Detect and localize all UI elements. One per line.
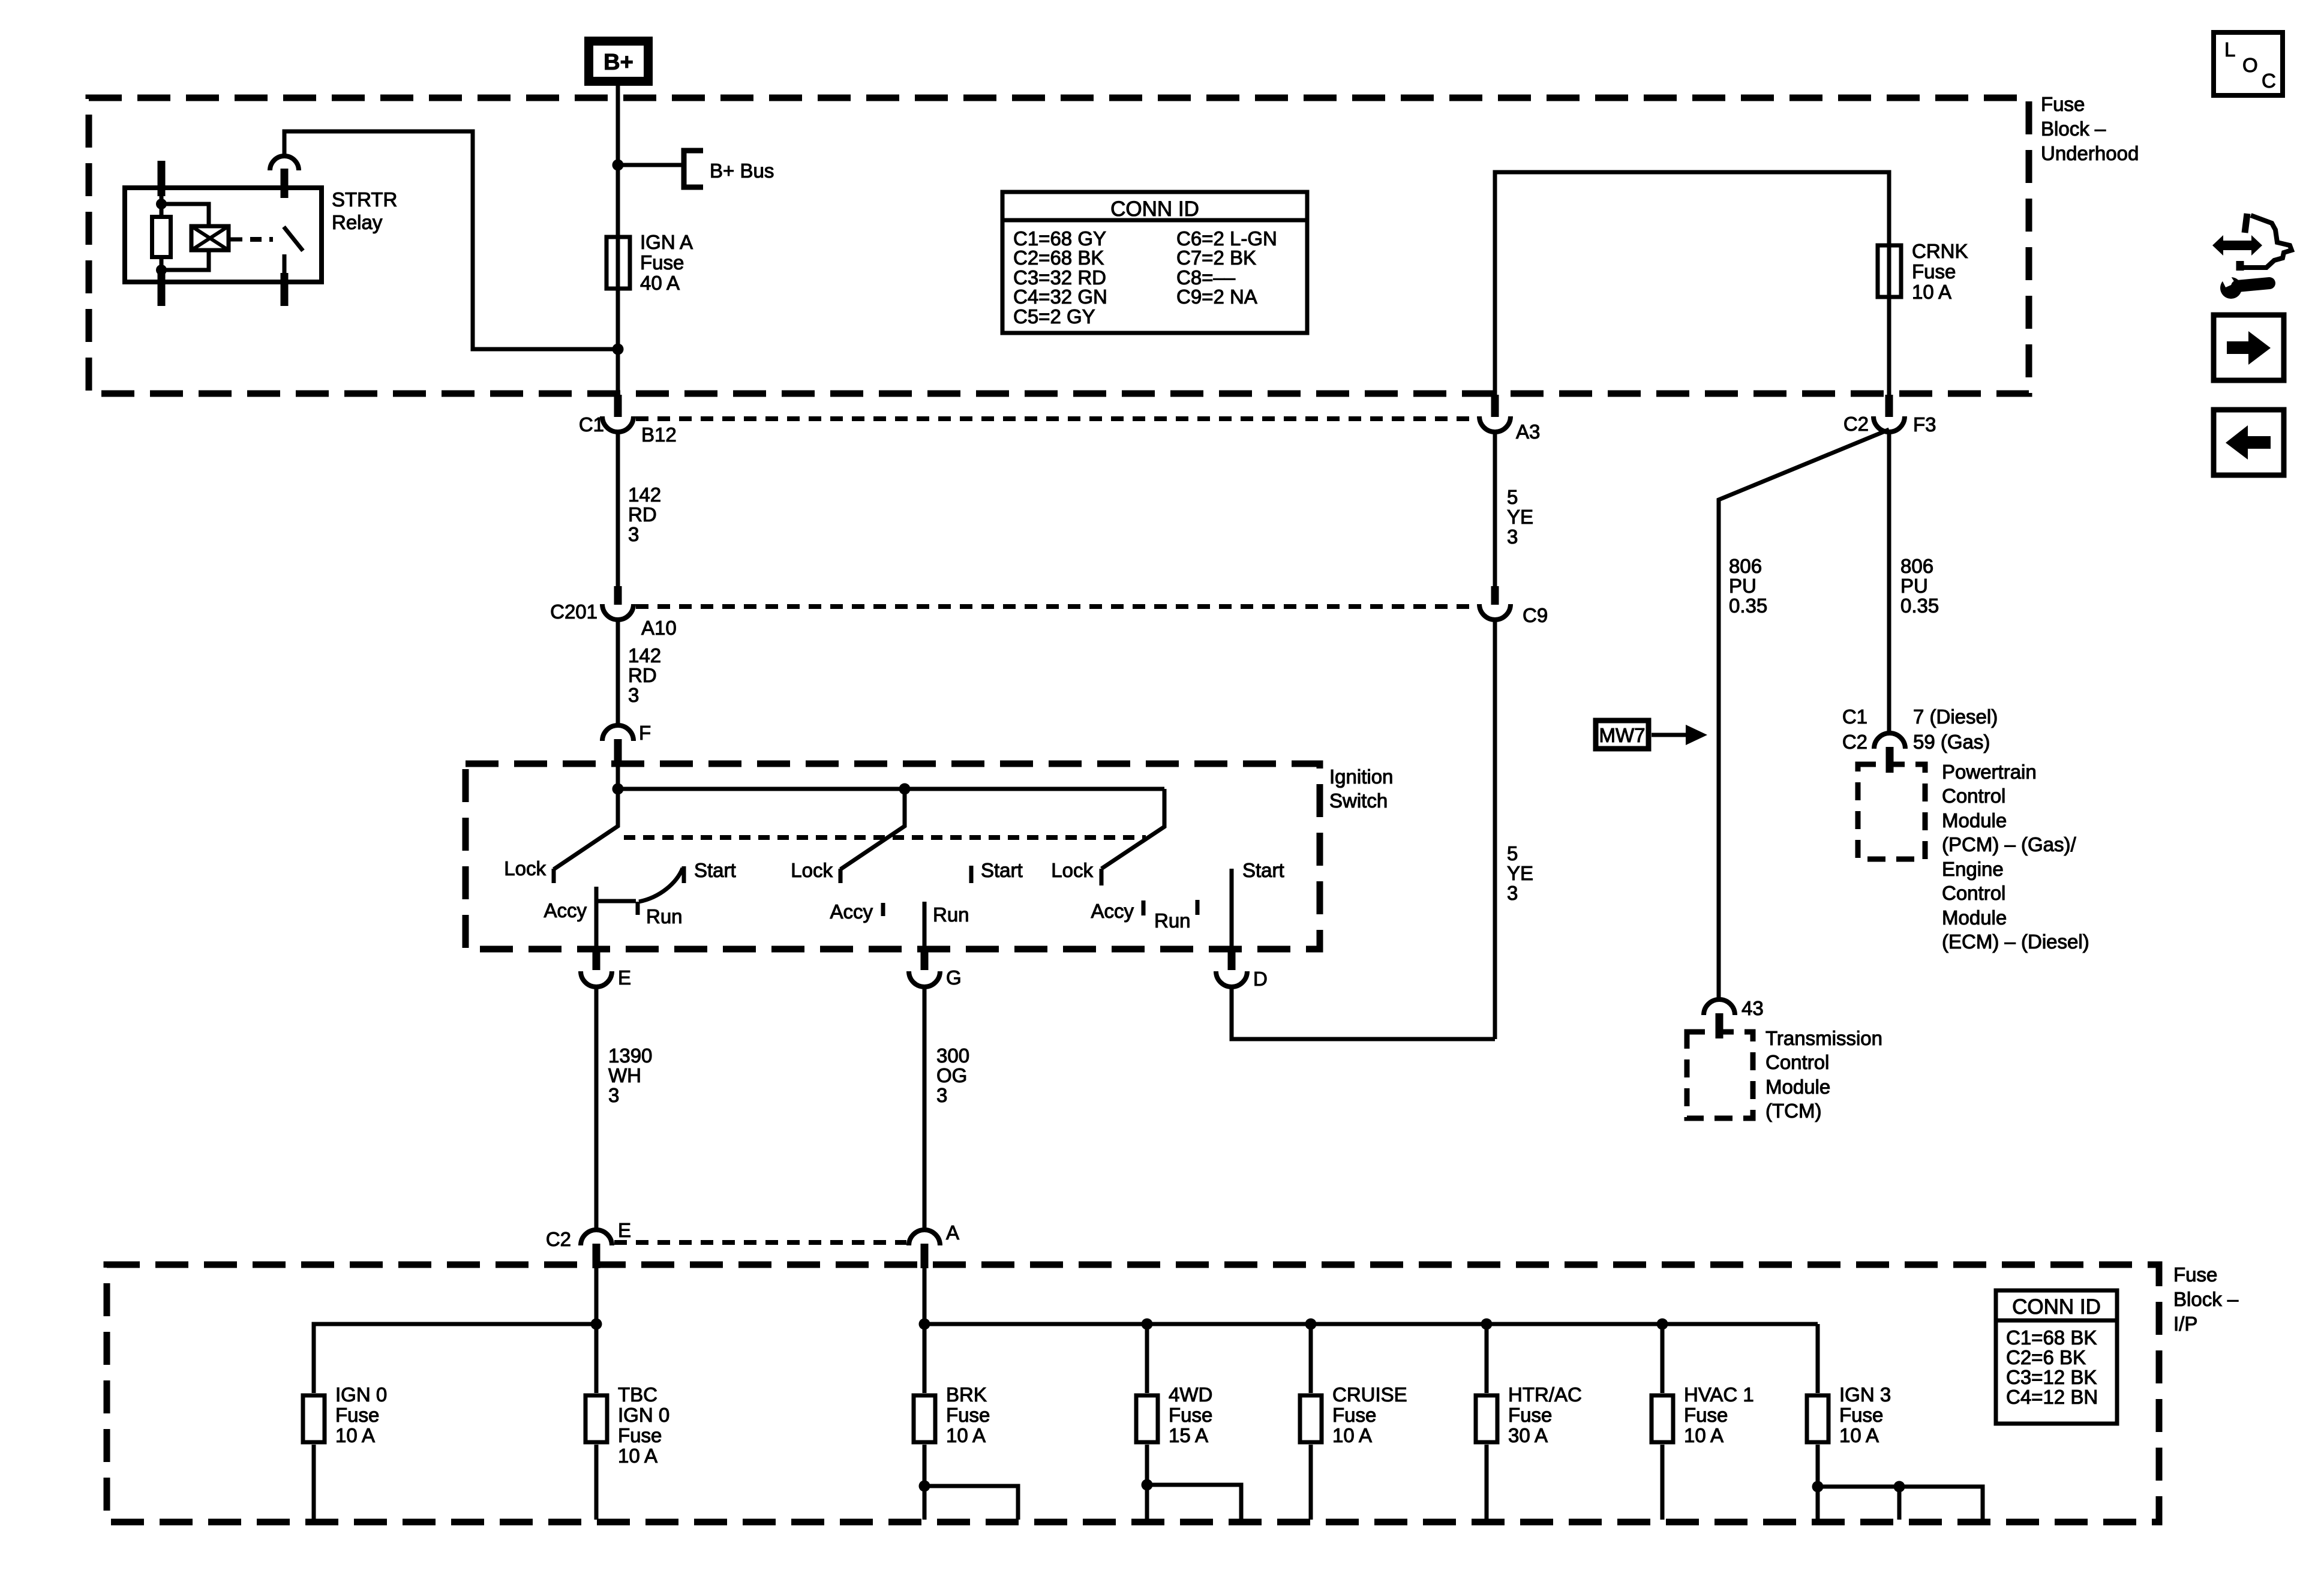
- relay switch pin top: [281, 169, 289, 198]
- node BRK lower junction: [919, 1481, 930, 1492]
- svg-text:BRK: BRK: [946, 1383, 987, 1406]
- connector C2 pin F3: [1843, 395, 1936, 436]
- svg-text:Run: Run: [933, 903, 969, 926]
- svg-text:3: 3: [608, 1084, 619, 1106]
- label wire 1390 WH 3: [608, 1044, 652, 1106]
- CONN ID table IP: [1996, 1290, 2117, 1424]
- svg-text:Fuse: Fuse: [640, 251, 684, 274]
- node 4WD lower junction: [1142, 1479, 1153, 1491]
- connector C201 pin A10: [550, 586, 677, 639]
- svg-text:F3: F3: [1913, 413, 1936, 436]
- svg-text:3: 3: [936, 1084, 947, 1106]
- svg-text:Fuse: Fuse: [1839, 1404, 1883, 1426]
- svg-text:C3=12 BK: C3=12 BK: [2006, 1366, 2097, 1388]
- wire CRNK feed horizontal: [1495, 172, 1889, 395]
- svg-text:C9: C9: [1523, 604, 1548, 626]
- label Ignition Switch: [1329, 766, 1393, 812]
- fuse BRK 10A: [914, 1383, 990, 1446]
- svg-text:142: 142: [628, 644, 661, 667]
- svg-text:A10: A10: [641, 617, 677, 639]
- svg-text:Start: Start: [1242, 859, 1284, 881]
- wire HTR/AC branch: [1485, 1324, 1489, 1393]
- connector C1 pin B12: [579, 395, 677, 446]
- svg-text:10 A: 10 A: [1332, 1424, 1372, 1446]
- svg-text:C201: C201: [550, 601, 597, 623]
- wire 1390 WH circuit: [594, 987, 599, 1230]
- connector PCM pins C1 C2: [1842, 706, 1998, 773]
- svg-text:Fuse: Fuse: [1684, 1404, 1728, 1426]
- wire coil branch: [161, 204, 209, 270]
- svg-text:PU: PU: [1729, 575, 1756, 597]
- contact Run 1: [596, 901, 683, 927]
- svg-text:C2=6 BK: C2=6 BK: [2006, 1346, 2086, 1368]
- svg-text:Fuse: Fuse: [2041, 93, 2085, 115]
- label wire 5 YE 3 upper: [1507, 486, 1533, 548]
- node bus junction 4WD: [1142, 1319, 1153, 1330]
- fuse IGN 0 10A: [303, 1383, 387, 1446]
- svg-text:(PCM) – (Gas)/: (PCM) – (Gas)/: [1942, 833, 2077, 855]
- label wire 142 RD 3 second: [628, 644, 661, 706]
- svg-text:I/P: I/P: [2173, 1313, 2197, 1335]
- svg-text:Fuse: Fuse: [1508, 1404, 1552, 1426]
- contact Lock 1: [504, 857, 554, 883]
- svg-text:Accy: Accy: [830, 900, 873, 923]
- svg-text:CRUISE: CRUISE: [1332, 1383, 1407, 1406]
- svg-text:O: O: [2242, 54, 2258, 76]
- wire 300 OG circuit: [923, 987, 927, 1230]
- svg-text:STRTR: STRTR: [332, 188, 397, 211]
- svg-text:D: D: [1253, 968, 1268, 990]
- svg-text:Block –: Block –: [2041, 118, 2106, 140]
- wire below IGN 3 fuse with stubs: [1818, 1445, 1983, 1520]
- icon arrow right box: [2214, 315, 2284, 380]
- svg-text:TBC: TBC: [618, 1383, 657, 1406]
- svg-text:CRNK: CRNK: [1912, 240, 1968, 262]
- fuse HTR/AC 30A: [1476, 1383, 1582, 1446]
- wire dashed connector row C1: [636, 416, 1477, 421]
- svg-text:Fuse: Fuse: [1169, 1404, 1212, 1426]
- node B+ bus junction: [612, 160, 624, 171]
- svg-text:C2: C2: [1843, 413, 1869, 435]
- node IGN 3 lower junction 1: [1812, 1481, 1824, 1493]
- connector A fuse block IP: [909, 1221, 959, 1268]
- contact Lock 2: [791, 859, 840, 883]
- label Powertrain Control Module: [1942, 761, 2089, 953]
- wire diagonal F3 to TCM branch: [1719, 430, 1889, 999]
- relay switch pin bottom: [281, 273, 289, 306]
- svg-text:5: 5: [1507, 842, 1518, 864]
- fuse HVAC 1 10A: [1652, 1383, 1754, 1446]
- svg-text:(TCM): (TCM): [1765, 1100, 1821, 1122]
- svg-text:142: 142: [628, 484, 661, 506]
- svg-text:3: 3: [1507, 882, 1518, 904]
- svg-text:Transmission: Transmission: [1765, 1027, 1882, 1049]
- relay coil pin top: [158, 161, 166, 196]
- wire below HVAC 1 fuse: [1661, 1445, 1665, 1520]
- node relay branch junction: [612, 344, 624, 355]
- svg-text:Run: Run: [646, 905, 683, 927]
- svg-text:Powertrain: Powertrain: [1942, 761, 2037, 783]
- svg-text:Run: Run: [1154, 909, 1191, 932]
- svg-text:C4=32 GN: C4=32 GN: [1013, 286, 1107, 308]
- svg-text:HTR/AC: HTR/AC: [1508, 1383, 1582, 1406]
- svg-text:15 A: 15 A: [1169, 1424, 1208, 1446]
- svg-text:3: 3: [628, 684, 639, 706]
- svg-text:B12: B12: [641, 424, 677, 446]
- wire IP bus left: [314, 1268, 596, 1393]
- svg-text:Module: Module: [1765, 1076, 1830, 1098]
- node relay top junction: [156, 199, 167, 209]
- node bus junction HVAC 1: [1657, 1319, 1668, 1330]
- node relay bottom junction: [156, 265, 167, 275]
- svg-text:Ignition: Ignition: [1329, 766, 1393, 788]
- svg-text:PU: PU: [1900, 575, 1928, 597]
- CONN ID table underhood: [1002, 192, 1307, 333]
- contact Run 2 / wire G output: [924, 902, 969, 951]
- node bus junction HTR/AC: [1481, 1319, 1493, 1330]
- fuse TBC IGN 0 10A: [585, 1383, 669, 1467]
- svg-text:Fuse: Fuse: [946, 1404, 990, 1426]
- svg-text:Fuse: Fuse: [2173, 1263, 2217, 1286]
- svg-text:B+: B+: [603, 50, 633, 75]
- connector C2 pin E fuse block IP: [546, 1219, 631, 1268]
- wire 5 YE lower segment: [1232, 620, 1495, 1039]
- wire dashed connector row E-A: [614, 1240, 906, 1245]
- fuse 4WD 15A: [1136, 1383, 1212, 1446]
- svg-text:Module: Module: [1942, 809, 2007, 831]
- svg-text:C1: C1: [579, 413, 604, 436]
- svg-text:Switch: Switch: [1329, 789, 1388, 812]
- MW7 pointer arrow: [1652, 725, 1707, 745]
- svg-text:C1: C1: [1842, 706, 1867, 728]
- svg-text:0.35: 0.35: [1729, 595, 1767, 617]
- svg-text:Relay: Relay: [332, 211, 383, 233]
- label wire 806 PU 0.35 left: [1729, 555, 1767, 617]
- svg-text:Underhood: Underhood: [2041, 142, 2139, 164]
- wire below CRUISE fuse: [1309, 1445, 1313, 1520]
- icon vehicle diagnostic: [2212, 214, 2292, 299]
- svg-text:30 A: 30 A: [1508, 1424, 1548, 1446]
- label STRTR Relay: [332, 188, 397, 233]
- wire to B+ Bus: [618, 163, 683, 167]
- svg-text:59 (Gas): 59 (Gas): [1913, 731, 1990, 753]
- svg-text:10 A: 10 A: [1684, 1424, 1724, 1446]
- switch blade section 2: [840, 789, 905, 869]
- svg-text:B+ Bus: B+ Bus: [710, 160, 774, 182]
- svg-text:RD: RD: [628, 664, 657, 686]
- svg-text:10 A: 10 A: [1839, 1424, 1879, 1446]
- svg-text:0.35: 0.35: [1900, 595, 1939, 617]
- svg-text:C9=2 NA: C9=2 NA: [1176, 286, 1257, 308]
- wire B+ vertical feed: [616, 86, 620, 395]
- svg-text:YE: YE: [1507, 862, 1533, 884]
- label Transmission Control Module: [1765, 1027, 1882, 1122]
- svg-text:1390: 1390: [608, 1044, 652, 1067]
- svg-text:F: F: [639, 722, 651, 744]
- svg-text:10 A: 10 A: [946, 1424, 986, 1446]
- relay switch pin socket arc: [270, 156, 299, 170]
- wire below BRK fuse with stubs: [924, 1445, 1018, 1520]
- node IGN 3 lower junction 2: [1894, 1481, 1905, 1493]
- svg-text:IGN 0: IGN 0: [335, 1383, 387, 1406]
- wire 5 YE upper segment: [1493, 430, 1497, 586]
- svg-text:IGN A: IGN A: [640, 231, 693, 253]
- svg-text:43: 43: [1742, 997, 1764, 1019]
- contact Accy 1 / wire E output: [544, 887, 596, 951]
- node pole junction 2: [899, 784, 911, 795]
- svg-text:Start: Start: [694, 859, 736, 881]
- svg-text:CONN ID: CONN ID: [1110, 197, 1199, 221]
- contact Start 1: [684, 859, 736, 883]
- connector G ignition switch: [909, 950, 962, 989]
- fuse block IP dashed box: [107, 1265, 2159, 1522]
- node bus junction A: [919, 1319, 930, 1330]
- svg-text:C5=2 GY: C5=2 GY: [1013, 305, 1095, 328]
- svg-text:WH: WH: [608, 1064, 641, 1086]
- wire 142 RD circuit upper: [616, 432, 620, 586]
- svg-text:YE: YE: [1507, 506, 1533, 528]
- coil relay winding: [191, 226, 229, 250]
- svg-text:3: 3: [1507, 526, 1518, 548]
- MW7 option box: [1596, 721, 1649, 749]
- wire IP bus right: [924, 1268, 1818, 1393]
- svg-text:C7=2 BK: C7=2 BK: [1176, 247, 1256, 269]
- svg-text:A3: A3: [1516, 421, 1540, 443]
- wire 4WD branch: [1145, 1324, 1149, 1393]
- svg-text:C2: C2: [1842, 731, 1867, 753]
- svg-text:A: A: [946, 1221, 959, 1244]
- wire dashed actuator linkage: [229, 238, 242, 242]
- svg-text:Accy: Accy: [1091, 900, 1134, 922]
- svg-text:Control: Control: [1765, 1051, 1829, 1073]
- svg-text:IGN 0: IGN 0: [618, 1404, 669, 1426]
- wire dashed switch linkage: [624, 835, 1146, 840]
- contact Lock 3: [1051, 859, 1101, 885]
- wire pole feed into switch: [618, 763, 1164, 789]
- svg-text:Control: Control: [1942, 882, 2005, 904]
- connector D ignition switch: [1216, 950, 1268, 990]
- PCM module dashed box: [1858, 764, 1925, 859]
- node pole junction 1: [612, 784, 624, 795]
- svg-text:E: E: [618, 1219, 631, 1241]
- svg-text:10 A: 10 A: [1912, 281, 1951, 303]
- connector E ignition switch: [581, 950, 631, 989]
- ignition switch dashed box: [466, 764, 1320, 949]
- contact Start 3 / wire D output: [1232, 859, 1284, 951]
- svg-text:10 A: 10 A: [335, 1424, 375, 1446]
- svg-text:C1=68 BK: C1=68 BK: [2006, 1326, 2097, 1349]
- B+ power symbol: [589, 41, 648, 82]
- wire below 4WD fuse with stubs: [1147, 1445, 1241, 1520]
- svg-text:Fuse: Fuse: [618, 1424, 662, 1446]
- connector TCM pin 43: [1704, 997, 1764, 1038]
- contact Accy 3: [1091, 900, 1143, 922]
- svg-text:Lock: Lock: [504, 857, 546, 879]
- wire from junction to relay switch: [284, 131, 618, 349]
- svg-text:Lock: Lock: [791, 859, 833, 881]
- svg-text:300: 300: [936, 1044, 969, 1067]
- svg-text:Block –: Block –: [2173, 1288, 2239, 1310]
- wire CRUISE branch: [1309, 1324, 1313, 1393]
- svg-text:Fuse: Fuse: [1332, 1404, 1376, 1426]
- svg-text:Lock: Lock: [1051, 859, 1093, 881]
- relay coil pin bottom: [158, 273, 166, 306]
- svg-text:Fuse: Fuse: [335, 1404, 379, 1426]
- node bus junction CRUISE: [1305, 1319, 1317, 1330]
- svg-text:L: L: [2224, 38, 2235, 61]
- fuse CRUISE 10A: [1300, 1383, 1407, 1446]
- TCM module dashed box: [1687, 1032, 1753, 1118]
- resistor relay internal: [152, 217, 171, 257]
- switch blade section 1: [554, 789, 618, 869]
- label wire 142 RD 3: [628, 484, 661, 545]
- svg-text:Fuse: Fuse: [1912, 260, 1956, 283]
- connector F ignition switch: [602, 722, 651, 763]
- wire below TBC fuse: [594, 1445, 599, 1520]
- svg-text:3: 3: [628, 523, 639, 545]
- svg-text:(ECM) – (Diesel): (ECM) – (Diesel): [1942, 930, 2089, 953]
- contact Start 2: [971, 859, 1023, 883]
- svg-text:C2=68 BK: C2=68 BK: [1013, 247, 1104, 269]
- connector A3 pin: [1479, 395, 1540, 443]
- svg-text:MW7: MW7: [1599, 724, 1646, 746]
- svg-text:Start: Start: [981, 859, 1023, 881]
- wire 142 RD circuit lower: [616, 620, 620, 725]
- label wire 806 PU 0.35 right: [1900, 555, 1939, 617]
- spring return arc to Start 1: [639, 868, 683, 902]
- switch blade section 3: [1101, 789, 1164, 869]
- icon LOC box: [2214, 32, 2283, 95]
- svg-text:Engine: Engine: [1942, 858, 2004, 880]
- svg-text:CONN ID: CONN ID: [2012, 1295, 2101, 1319]
- label Fuse Block - Underhood: [2041, 93, 2139, 164]
- svg-text:Accy: Accy: [544, 899, 587, 921]
- svg-text:E: E: [618, 966, 631, 989]
- wire below IGN 0 fuse: [312, 1445, 316, 1520]
- node bus junction E: [591, 1319, 602, 1330]
- svg-text:G: G: [946, 966, 962, 989]
- label wire 5 YE 3 lower: [1507, 842, 1533, 904]
- svg-text:OG: OG: [936, 1064, 967, 1086]
- svg-text:HVAC 1: HVAC 1: [1684, 1383, 1754, 1406]
- icon arrow left box: [2214, 410, 2284, 475]
- svg-text:4WD: 4WD: [1169, 1383, 1212, 1406]
- svg-text:IGN 3: IGN 3: [1839, 1383, 1891, 1406]
- relay STRTR box: [125, 188, 322, 282]
- wire F3 to PCM: [1887, 430, 1891, 733]
- wire HVAC 1 branch: [1661, 1324, 1665, 1393]
- svg-text:10 A: 10 A: [618, 1445, 657, 1467]
- svg-text:Control: Control: [1942, 785, 2005, 807]
- contact Accy 2: [830, 900, 883, 923]
- svg-text:40 A: 40 A: [640, 272, 680, 294]
- svg-text:C: C: [2262, 70, 2276, 92]
- wire dashed connector row C201: [636, 604, 1477, 609]
- svg-text:7 (Diesel): 7 (Diesel): [1913, 706, 1998, 728]
- svg-text:5: 5: [1507, 486, 1518, 508]
- svg-text:806: 806: [1729, 555, 1762, 577]
- svg-text:C4=12 BN: C4=12 BN: [2006, 1386, 2098, 1408]
- relay switch blade: [284, 227, 303, 273]
- fuse block underhood dashed box: [89, 98, 2029, 394]
- svg-text:Module: Module: [1942, 906, 2007, 929]
- label wire 300 OG 3: [936, 1044, 969, 1106]
- svg-text:806: 806: [1900, 555, 1933, 577]
- fuse CRNK 10A: [1878, 240, 1968, 303]
- label Fuse Block - I/P: [2173, 1263, 2239, 1335]
- fuse IGN A 40A: [606, 231, 693, 294]
- svg-text:RD: RD: [628, 503, 657, 526]
- connector C9 pin: [1479, 586, 1548, 626]
- wire below HTR/AC fuse: [1485, 1445, 1489, 1520]
- svg-text:C2: C2: [546, 1228, 571, 1250]
- B+ Bus terminal bracket: [684, 151, 774, 187]
- contact Run 3: [1154, 900, 1197, 932]
- wire relay internal left: [160, 196, 164, 273]
- fuse IGN 3 10A: [1807, 1383, 1891, 1446]
